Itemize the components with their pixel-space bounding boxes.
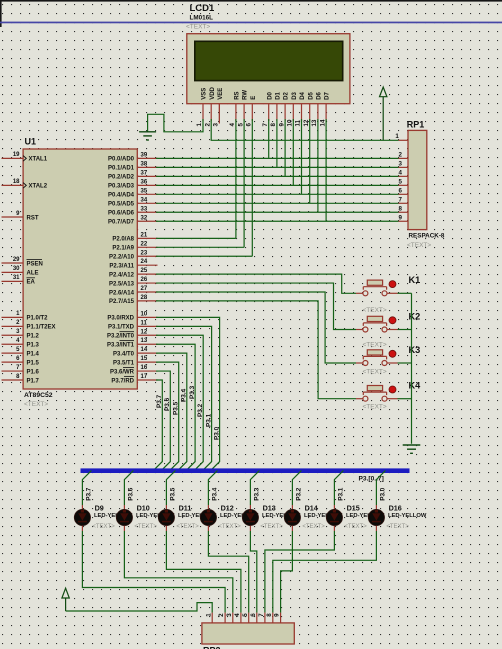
svg-text:D0: D0	[267, 91, 273, 99]
U1 left pin 31 (EA) stub	[2, 280, 24, 282]
U1 left pin 3 (P1.2) stub	[2, 334, 24, 336]
RP2 pin 9 stub	[280, 613, 282, 623]
RP1 pin 1 stub	[399, 139, 409, 141]
power arrow terminal bottom-left	[62, 588, 69, 598]
switch K3 left pin stub	[356, 362, 363, 364]
wire P3.4 from U1 to bus	[156, 353, 187, 470]
svg-text:P1.0/T2: P1.0/T2	[27, 316, 49, 322]
switch K2 left terminal	[363, 327, 368, 332]
U1 left pin 5 (P1.4) stub	[2, 352, 24, 354]
svg-text:<TEXT>: <TEXT>	[363, 369, 387, 376]
sheet top border (blue)	[0, 22, 502, 24]
wire P2 row to LCD control	[156, 237, 236, 239]
window top border	[0, 0, 502, 2]
LED D16 top pin stub	[375, 505, 377, 510]
svg-text:D12: D12	[221, 503, 234, 512]
svg-text:P3.3: P3.3	[189, 385, 196, 399]
U1 right pin 14 (P3.4/T0) stub	[137, 352, 157, 354]
LED D9 bottom pin stub	[81, 526, 83, 531]
svg-text:P3.7: P3.7	[156, 394, 163, 408]
LED D14 top pin stub	[291, 505, 293, 510]
U1 left pin 2 (P1.1/T2EX) stub	[2, 325, 24, 327]
wire P3.2 from U1 to bus	[156, 335, 203, 470]
svg-text:29: 29	[13, 257, 20, 263]
svg-text:21: 21	[141, 232, 148, 238]
svg-text:P3.5: P3.5	[173, 401, 180, 415]
wire P2 row to LCD control	[156, 255, 252, 257]
LCD pin 13 stub	[317, 104, 319, 121]
svg-text:K4: K4	[409, 381, 422, 391]
ground symbol for switches	[403, 444, 421, 446]
U1 right pin 32 (P0.7/AD7) stub	[137, 220, 157, 222]
wire P3.0 from U1 to bus	[156, 317, 220, 470]
overline for P3.7/RD	[124, 375, 134, 377]
U1 right pin 39 (P0.0/AD0) stub	[137, 157, 157, 159]
svg-text:12: 12	[141, 329, 148, 335]
LED D12 bottom pin stub	[207, 526, 209, 531]
U1 left pin 7 (P1.6) stub	[2, 370, 24, 372]
svg-text:28: 28	[141, 295, 148, 301]
svg-text:VSS: VSS	[202, 88, 208, 100]
svg-text:PSEN: PSEN	[27, 261, 43, 267]
svg-text:LM016L: LM016L	[190, 14, 214, 21]
svg-text:<TEXT>: <TEXT>	[92, 524, 115, 530]
wire LED D9 to connector pin 2	[82, 531, 225, 613]
RP2 pin 1 stub	[211, 613, 213, 623]
svg-text:P3.0: P3.0	[380, 487, 387, 501]
svg-text:16: 16	[141, 365, 148, 371]
LCD screen area	[195, 41, 343, 80]
svg-text:LCD1: LCD1	[190, 3, 216, 14]
U1 left pin 1 (P1.0/T2) stub	[2, 316, 24, 318]
svg-text:<TEXT>: <TEXT>	[363, 307, 387, 314]
svg-text:RP2: RP2	[203, 646, 221, 649]
power arrow terminal VCC for RP1	[380, 87, 387, 97]
wire K1 right terminal to ground rail	[398, 292, 412, 294]
U1 right pin 22 (P2.1/A9) stub	[137, 246, 157, 248]
RP2 pin 7 stub	[264, 613, 266, 623]
svg-text:13: 13	[311, 119, 318, 126]
U1 right pin 23 (P2.2/A10) stub	[137, 255, 157, 257]
wire LCD RS vertical to P2	[235, 119, 237, 238]
U1 right pin 10 (P3.0/RXD) stub	[137, 316, 157, 318]
svg-text:5: 5	[237, 123, 244, 127]
svg-text:5: 5	[242, 613, 249, 617]
svg-text:D3: D3	[292, 91, 298, 99]
wire bus tap to LED D12	[208, 471, 217, 505]
U1 right pin 35 (P0.4/AD4) stub	[137, 193, 157, 195]
U1 right pin 24 (P2.3/A11) stub	[137, 264, 157, 266]
wire LCD RW vertical to P2	[243, 119, 245, 247]
wire LCD D1 vertical to P0.1	[276, 119, 278, 167]
svg-text:<TEXT>: <TEXT>	[363, 342, 387, 349]
svg-text:D5: D5	[308, 91, 314, 99]
wire P3.6 from U1 to bus	[156, 371, 170, 471]
LED D14 bottom pin stub	[291, 526, 293, 531]
svg-text:7: 7	[258, 613, 265, 617]
svg-text:P3.1/TXD: P3.1/TXD	[108, 325, 135, 331]
RP2 pin 2 stub	[224, 613, 226, 623]
wire bus tap to LED D14	[292, 471, 301, 505]
overline for P3.6/WR	[123, 366, 134, 368]
ground rail for switches	[411, 293, 413, 444]
svg-text:<TEXT>: <TEXT>	[134, 524, 157, 530]
wire P2.5 to K2	[156, 283, 356, 329]
U1 left pin 30 (ALE) stub	[2, 271, 24, 273]
svg-text:2: 2	[399, 152, 403, 159]
switch K2 state dot	[389, 317, 396, 324]
svg-text:14: 14	[319, 119, 326, 126]
svg-text:P3.7: P3.7	[86, 487, 93, 501]
RP1 pin 6 stub	[399, 193, 409, 195]
svg-text:P3.1: P3.1	[205, 413, 212, 427]
switch K2 actuator bar	[363, 322, 386, 324]
svg-text:35: 35	[141, 188, 148, 194]
svg-text:P0.2/AD2: P0.2/AD2	[108, 175, 135, 181]
wire K2 right terminal to ground rail	[398, 329, 412, 331]
LCD pin 9 stub	[284, 104, 286, 121]
svg-text:12: 12	[303, 119, 310, 126]
switch K1 left terminal	[363, 291, 368, 296]
svg-text:36: 36	[141, 179, 148, 185]
switch K3 right pin stub	[387, 362, 398, 364]
wire LED D12 to connector pin 5	[208, 531, 248, 613]
svg-text:13: 13	[141, 338, 148, 344]
U1 right pin 21 (P2.0/A8) stub	[137, 237, 157, 239]
wire LCD D5 vertical to P0.5	[309, 119, 311, 203]
LED D11 top pin stub	[165, 505, 167, 510]
LED D9 top pin stub	[81, 505, 83, 510]
svg-text:P1.7: P1.7	[27, 378, 40, 384]
wire LCD D3 vertical to P0.3	[292, 119, 294, 185]
svg-text:RS: RS	[235, 91, 241, 99]
U1 right pin 28 (P2.7/A15) stub	[137, 300, 157, 302]
U1 left pin 6 (P1.5) stub	[2, 361, 24, 363]
RP2 pin 6 stub	[256, 613, 258, 623]
svg-text:8: 8	[270, 123, 277, 127]
RP1 pin 5 stub	[399, 184, 409, 186]
svg-text:<TEXT>: <TEXT>	[186, 24, 210, 31]
U1 left pin 29 (PSEN) stub	[2, 262, 24, 264]
svg-text:9: 9	[274, 613, 281, 617]
wire LED D15 to connector pin 8	[265, 531, 335, 613]
switch K2 right terminal	[382, 327, 387, 332]
wire P2.7 to K4	[156, 301, 356, 399]
wire P2 row to LCD control	[156, 246, 244, 248]
svg-text:22: 22	[141, 241, 148, 247]
svg-text:P2.7/A15: P2.7/A15	[109, 299, 135, 305]
LCD pin 7 stub	[268, 104, 270, 121]
svg-text:2: 2	[218, 613, 225, 617]
svg-text:P3.0: P3.0	[213, 426, 220, 440]
svg-text:P3.2/INT0: P3.2/INT0	[107, 334, 135, 340]
svg-text:P3.5/T1: P3.5/T1	[113, 360, 135, 366]
wire LED D13 to connector pin 6	[250, 531, 256, 613]
U1 left pin 18 (XTAL2) stub	[2, 184, 24, 186]
switch K2 right pin stub	[387, 329, 398, 331]
XTAL2 pin chevron	[23, 183, 26, 189]
svg-text:5: 5	[399, 179, 403, 186]
switch K3 actuator cap	[367, 350, 382, 355]
wire bus tap to LED D11	[166, 471, 175, 505]
LED D11 bottom pin stub	[165, 526, 167, 531]
switch K4 right terminal	[382, 396, 387, 401]
U1 right pin 25 (P2.4/A12) stub	[137, 273, 157, 275]
svg-text:VEE: VEE	[218, 88, 224, 100]
wire LED D11 to connector pin 4	[166, 531, 241, 613]
LED D16 body	[368, 509, 384, 525]
wire P3.5 from U1 to bus	[156, 362, 179, 471]
svg-text:P0.4/AD4: P0.4/AD4	[108, 193, 135, 199]
wire LCD D2 vertical to P0.2	[284, 119, 286, 176]
svg-text:11: 11	[141, 320, 148, 326]
wire K4 right terminal to ground rail	[398, 398, 412, 400]
ground symbol near LCD	[139, 131, 156, 133]
LCD pin 1 stub	[202, 104, 204, 121]
wire P0.6 row from U1 to RP1	[156, 211, 399, 213]
LCD pin 2 stub	[210, 104, 212, 121]
wire LCD D6 vertical to P0.6	[317, 119, 319, 212]
svg-text:P2.4/A12: P2.4/A12	[109, 272, 135, 278]
wire P0.5 row from U1 to RP1	[156, 202, 399, 204]
switch K4 right pin stub	[387, 398, 398, 400]
RP1 pin 3 stub	[399, 166, 409, 168]
switch K1 right pin stub	[387, 292, 398, 294]
svg-text:23: 23	[141, 250, 148, 256]
bus P3.[0..7]	[81, 468, 410, 473]
RP1 pin 8 stub	[399, 211, 409, 213]
svg-text:P3.6/WR: P3.6/WR	[110, 369, 135, 375]
svg-text:<TEXT>: <TEXT>	[302, 524, 325, 530]
svg-text:RW: RW	[243, 90, 249, 100]
svg-text:25: 25	[141, 268, 148, 274]
resistor pack RP1 body RESPACK-8	[408, 130, 427, 229]
LCD VEE unconnected stub extension	[218, 104, 220, 124]
U1 right pin 33 (P0.6/AD6) stub	[137, 211, 157, 213]
wire P3.7 from U1 to bus	[153, 380, 162, 471]
svg-text:31: 31	[13, 275, 20, 281]
svg-text:P1.3: P1.3	[27, 343, 40, 349]
svg-text:RP1: RP1	[407, 120, 425, 130]
RP2 pin 3 stub	[232, 613, 234, 623]
svg-text:P3.0/RXD: P3.0/RXD	[107, 316, 134, 322]
svg-text:9: 9	[399, 214, 403, 221]
wire bus tap to LED D9	[82, 471, 91, 505]
svg-text:P1.4: P1.4	[27, 351, 40, 357]
svg-text:P3.2: P3.2	[197, 403, 204, 417]
svg-text:P1.1/T2EX: P1.1/T2EX	[27, 325, 56, 331]
svg-text:30: 30	[13, 266, 20, 272]
svg-text:P1.2: P1.2	[27, 334, 40, 340]
overline for EA	[27, 277, 36, 279]
svg-text:10: 10	[141, 311, 148, 317]
LED D12 top pin stub	[207, 505, 209, 510]
svg-text:<TEXT>: <TEXT>	[386, 524, 409, 530]
wire bus tap to LED D15	[334, 471, 343, 505]
svg-text:3: 3	[213, 123, 220, 127]
LED D9 body	[74, 509, 90, 525]
svg-text:XTAL1: XTAL1	[29, 157, 48, 163]
wire K3 right terminal to ground rail	[398, 362, 412, 364]
wire P0.4 row from U1 to RP1	[156, 193, 399, 195]
U1 left pin 8 (P1.7) stub	[2, 379, 24, 381]
svg-text:P2.5/A13: P2.5/A13	[109, 281, 135, 287]
XTAL1 pin chevron	[23, 156, 26, 162]
svg-text:8: 8	[399, 205, 403, 212]
wire bus tap to LED D16	[376, 471, 385, 505]
wire P3.3 from U1 to bus	[156, 344, 195, 470]
LCD pin 3 stub	[218, 104, 220, 121]
switch K4 left pin stub	[356, 398, 363, 400]
svg-text:P3.1: P3.1	[338, 487, 345, 501]
svg-text:E: E	[251, 96, 257, 100]
svg-text:4: 4	[399, 170, 403, 177]
svg-text:8: 8	[266, 613, 273, 617]
wire LED D10 to connector pin 3	[124, 531, 232, 613]
resistor pack RP2 body	[202, 623, 294, 644]
switch K3 left terminal	[363, 361, 368, 366]
svg-text:6: 6	[250, 613, 257, 617]
svg-text:10: 10	[287, 119, 294, 126]
svg-text:D15: D15	[347, 503, 360, 512]
switch K2 left pin stub	[356, 329, 363, 331]
overline for P3.3/INT1	[120, 340, 135, 342]
LCD pin 5 stub	[243, 104, 245, 121]
U1 right pin 16 (P3.6/WR) stub	[137, 370, 157, 372]
svg-text:LED-YELLOW: LED-YELLOW	[388, 513, 427, 519]
svg-text:P0.7/AD7: P0.7/AD7	[108, 220, 135, 226]
wire from bottom-left arrow to connector pin 1	[66, 603, 213, 613]
RP1 pin 2 stub	[399, 157, 409, 159]
wire P0.0 row from U1 to RP1	[156, 157, 399, 159]
wire LED D14 to connector pin 7	[281, 531, 293, 613]
switch K1 right terminal	[382, 291, 387, 296]
svg-text:D4: D4	[300, 91, 306, 99]
U1 left pin 4 (P1.3) stub	[2, 343, 24, 345]
U1 right pin 38 (P0.1/AD1) stub	[137, 166, 157, 168]
svg-text:2: 2	[204, 123, 211, 127]
RP1 pin 9 stub	[399, 220, 409, 222]
svg-text:<TEXT>: <TEXT>	[24, 401, 48, 408]
wire LCD D4 vertical to P0.4	[301, 119, 303, 194]
svg-text:6: 6	[246, 123, 253, 127]
switch K1 state dot	[389, 281, 396, 288]
svg-text:1: 1	[395, 133, 399, 140]
LED D15 top pin stub	[333, 505, 335, 510]
svg-text:6: 6	[399, 188, 403, 195]
LCD pin 10 stub	[292, 104, 294, 121]
RP2 pin 4 stub	[240, 613, 242, 623]
svg-text:1: 1	[196, 123, 203, 127]
LED D12 body	[200, 509, 216, 525]
svg-text:K3: K3	[409, 345, 421, 355]
svg-text:P0.5/AD5: P0.5/AD5	[108, 202, 135, 208]
LED D13 top pin stub	[249, 505, 251, 510]
LED D10 top pin stub	[123, 505, 125, 510]
svg-text:RST: RST	[27, 215, 39, 221]
wire VSS from LCD pin1 to ground	[148, 114, 203, 132]
svg-text:D9: D9	[95, 503, 104, 512]
switch K3 actuator bar	[363, 355, 386, 357]
overline for PSEN	[27, 258, 43, 260]
svg-text:18: 18	[13, 179, 20, 185]
svg-text:RESPACK-8: RESPACK-8	[409, 232, 445, 239]
wire LCD D0 vertical to P0.0	[268, 119, 270, 158]
switch K3 state dot	[389, 350, 396, 357]
LCD pin 8 stub	[276, 104, 278, 121]
window left border	[0, 0, 2, 27]
microcontroller U1 body AT89C52	[23, 149, 137, 389]
svg-text:<TEXT>: <TEXT>	[218, 524, 241, 530]
svg-text:15: 15	[141, 356, 148, 362]
svg-text:<TEXT>: <TEXT>	[363, 404, 387, 411]
svg-text:3: 3	[226, 613, 233, 617]
LED D15 body	[326, 509, 342, 525]
wire P3.1 from U1 to bus	[156, 326, 212, 470]
svg-text:9: 9	[278, 123, 285, 127]
svg-text:D11: D11	[179, 503, 192, 512]
svg-text:P3.7/RD: P3.7/RD	[111, 378, 134, 384]
svg-text:D2: D2	[284, 91, 290, 99]
svg-text:P2.2/A10: P2.2/A10	[109, 255, 135, 261]
switch K1 actuator bar	[363, 286, 386, 288]
wire P0.1 row from U1 to RP1	[156, 166, 399, 168]
RP2 pin 5 stub	[248, 613, 250, 623]
LCD pin 12 stub	[309, 104, 311, 121]
wire bus tap to LED D13	[250, 471, 259, 505]
LED D16 bottom pin stub	[375, 526, 377, 531]
svg-text:P2.1/A9: P2.1/A9	[112, 246, 134, 252]
U1 right pin 17 (P3.7/RD) stub	[137, 379, 157, 381]
wire LCD E vertical to P2	[251, 119, 253, 256]
svg-text:P3.6: P3.6	[164, 397, 171, 411]
wire P2.6 to K3	[156, 292, 356, 363]
LED D13 body	[242, 509, 258, 525]
svg-text:P2.6/A14: P2.6/A14	[109, 290, 135, 296]
svg-text:P3.2: P3.2	[296, 487, 303, 501]
RP2 pin 8 stub	[272, 613, 274, 623]
LCD pin 4 stub	[235, 104, 237, 121]
svg-text:7: 7	[262, 123, 269, 127]
U1 right pin 12 (P3.2/INT0) stub	[137, 334, 157, 336]
svg-text:37: 37	[141, 170, 148, 176]
LED D11 body	[158, 509, 174, 525]
switch K3 right terminal	[382, 361, 387, 366]
LCD pin 14 stub	[325, 104, 327, 121]
LCD display U-body LM016L	[187, 34, 350, 104]
svg-text:1: 1	[205, 613, 212, 617]
LED D15 bottom pin stub	[333, 526, 335, 531]
svg-text:26: 26	[141, 277, 148, 283]
svg-text:<TEXT>: <TEXT>	[260, 524, 283, 530]
LED D10 body	[116, 509, 132, 525]
U1 left pin 19 (XTAL1) stub	[2, 157, 24, 159]
U1 right pin 13 (P3.3/INT1) stub	[137, 343, 157, 345]
LED D13 bottom pin stub	[249, 526, 251, 531]
svg-text:P0.3/AD3: P0.3/AD3	[108, 184, 135, 190]
svg-text:P3.4: P3.4	[212, 487, 219, 501]
svg-text:U1: U1	[25, 137, 37, 147]
wire P0.3 row from U1 to RP1	[156, 184, 399, 186]
svg-text:19: 19	[13, 152, 20, 158]
svg-text:17: 17	[141, 374, 148, 380]
switch K4 actuator cap	[367, 386, 382, 391]
svg-text:P0.1/AD1: P0.1/AD1	[108, 166, 135, 172]
switch K2 actuator cap	[367, 316, 382, 321]
svg-text:P3.4: P3.4	[181, 388, 188, 402]
switch K4 left terminal	[363, 396, 368, 401]
svg-text:EA: EA	[27, 280, 36, 286]
